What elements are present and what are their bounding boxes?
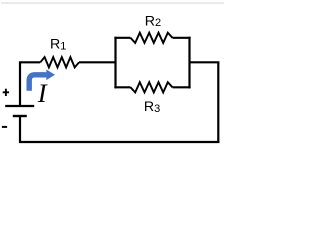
resistor R1 (40, 57, 79, 67)
current arrow (blue bent arrow) (29, 70, 55, 91)
battery V1 positive plate (long bar) (5, 105, 34, 107)
node B: right vertical wire of parallel branch (188, 37, 190, 89)
wire: bottom branch left segment to R3 (114, 86, 130, 88)
battery - sign (2, 126, 7, 128)
wire: bottom return to battery - terminal (20, 117, 219, 142)
wire: battery + terminal up to top-left corner and right to R1 (20, 62, 40, 105)
wire: bottom branch right segment from R3 (173, 86, 191, 88)
wire: outer right vertical down to bottom (217, 62, 219, 142)
wire: top branch left segment to R2 (114, 37, 130, 39)
resistor R3 (131, 82, 173, 92)
battery + sign (3, 89, 9, 96)
resistor R2 (131, 33, 173, 43)
svg-text:I: I (37, 78, 48, 108)
node A: left vertical wire of parallel branch (114, 37, 116, 89)
wire: node B to outer right wire (190, 61, 220, 63)
wire: top branch right segment from R2 (173, 37, 191, 39)
battery V1 negative plate (short bar) (13, 115, 27, 117)
wire: R1 to node A (parallel box input) (79, 61, 116, 63)
